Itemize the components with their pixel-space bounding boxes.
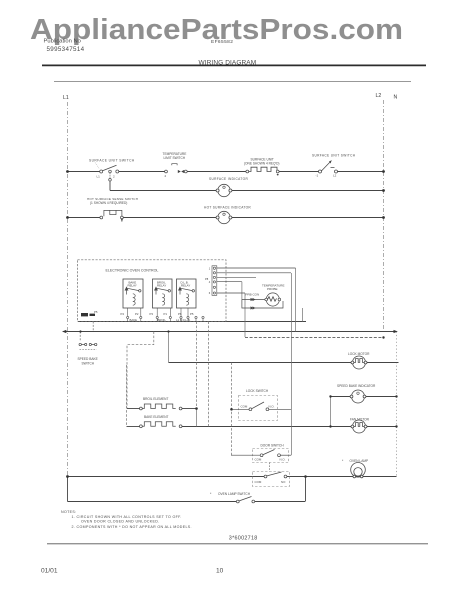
svg-text:BAKE: BAKE xyxy=(130,318,138,322)
svg-text:LOCK SWITCH: LOCK SWITCH xyxy=(246,389,269,393)
svg-text:2. COMPONENTS WITH * DO NO: 2. COMPONENTS WITH * DO NOT APPEAR ON AL… xyxy=(72,525,192,529)
svg-text:PROBE: PROBE xyxy=(267,287,278,291)
svg-text:SPEED BAKE INDICATOR: SPEED BAKE INDICATOR xyxy=(337,384,376,388)
svg-text:COM: COM xyxy=(255,480,262,484)
svg-text:P4: P4 xyxy=(121,312,125,316)
svg-text:N: N xyxy=(394,95,398,101)
svg-text:P5: P5 xyxy=(94,310,98,314)
svg-text:L1: L1 xyxy=(63,95,69,101)
svg-text:ELECTRONIC OVEN CONTROL: ELECTRONIC OVEN CONTROL xyxy=(106,269,159,273)
svg-text:3*6002718: 3*6002718 xyxy=(229,535,258,541)
svg-text:SURFACE UNIT SWITCH: SURFACE UNIT SWITCH xyxy=(89,159,135,163)
svg-text:LIMIT SWITCH: LIMIT SWITCH xyxy=(164,156,186,160)
svg-text:BROIL: BROIL xyxy=(158,318,167,322)
svg-text:BAKE ELEMENT: BAKE ELEMENT xyxy=(144,415,168,419)
svg-text:SWITCH: SWITCH xyxy=(82,361,95,365)
svg-text:RELAY: RELAY xyxy=(181,284,190,288)
svg-text:OVEN LAMP SWITCH: OVEN LAMP SWITCH xyxy=(218,492,251,496)
svg-text:(ONE SHOWN 4 REQ'D): (ONE SHOWN 4 REQ'D) xyxy=(244,162,280,166)
svg-text:RELAY: RELAY xyxy=(157,284,166,288)
svg-text:NO: NO xyxy=(281,480,286,484)
svg-text:FAN MOTOR: FAN MOTOR xyxy=(350,417,370,421)
svg-text:N.O.: N.O. xyxy=(269,405,275,409)
svg-text:OVEN DOOR CLOSED AND UNLOCKED.: OVEN DOOR CLOSED AND UNLOCKED. xyxy=(81,519,160,523)
svg-text:L2: L2 xyxy=(333,174,337,178)
svg-text:SURFACE INDICATOR: SURFACE INDICATOR xyxy=(209,177,248,181)
svg-text:P8: P8 xyxy=(205,277,209,281)
svg-text:BROIL ELEMENT: BROIL ELEMENT xyxy=(143,397,168,401)
svg-text:-1: -1 xyxy=(316,174,319,178)
svg-text:COM: COM xyxy=(255,458,262,462)
svg-text:L1: L1 xyxy=(97,175,101,179)
svg-text:EF65582: EF65582 xyxy=(211,39,233,45)
svg-text:P6: P6 xyxy=(178,312,182,316)
svg-text:01/01: 01/01 xyxy=(41,568,58,575)
svg-text:PRB CON: PRB CON xyxy=(246,292,260,296)
svg-text:(1 SHOWN 4 REQUIRED): (1 SHOWN 4 REQUIRED) xyxy=(90,201,127,205)
svg-text:Publication No: Publication No xyxy=(44,39,81,45)
svg-text:P3: P3 xyxy=(150,312,154,316)
svg-text:N.O.: N.O. xyxy=(280,458,286,462)
svg-text:10: 10 xyxy=(216,568,224,575)
svg-text:SURFACE UNIT SWITCH: SURFACE UNIT SWITCH xyxy=(312,154,356,158)
svg-text:NOTES:: NOTES: xyxy=(61,510,76,514)
svg-text:LOCK MOTOR: LOCK MOTOR xyxy=(348,352,370,356)
svg-text:RELAY: RELAY xyxy=(128,284,137,288)
svg-text:COM: COM xyxy=(241,405,248,409)
svg-text:P2: P2 xyxy=(135,312,139,316)
svg-text:L2: L2 xyxy=(376,93,382,99)
svg-text:HOT SURFACE INDICATOR: HOT SURFACE INDICATOR xyxy=(204,206,251,210)
svg-text:P1: P1 xyxy=(164,312,168,316)
svg-text:P5: P5 xyxy=(190,312,194,316)
svg-text:DOOR SWITCH: DOOR SWITCH xyxy=(261,444,285,448)
svg-text:5995347514: 5995347514 xyxy=(47,46,85,53)
